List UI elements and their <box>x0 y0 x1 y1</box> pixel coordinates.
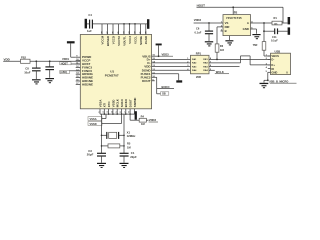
wire U2 DIR to R3 <box>217 26 223 28</box>
IC U2 level shifter <box>223 10 251 35</box>
capacitor C9 0.1uF <box>45 61 54 78</box>
ground under U2 bottom pin <box>225 36 233 46</box>
svg-text:VDD3: VDD3 <box>149 118 157 122</box>
capacitor C8 10uF <box>24 61 40 79</box>
power tie bar right of R1 <box>288 17 291 24</box>
node VDD3 label bottom right <box>149 118 158 122</box>
capacitor C3 20pF <box>87 149 106 163</box>
node VSSD label <box>88 114 122 126</box>
capacitor C11 0.1uF <box>264 28 288 42</box>
svg-text:20R: 20R <box>196 75 201 79</box>
svg-text:R5: R5 <box>127 142 131 146</box>
svg-text:VDD3: VDD3 <box>194 18 202 22</box>
svg-text:VSSA: VSSA <box>90 117 97 121</box>
svg-text:VDD: VDD <box>4 57 11 61</box>
svg-text:1M: 1M <box>141 122 145 126</box>
ground under C9 <box>45 78 54 83</box>
wire U2 GND pin to ground <box>251 29 257 34</box>
power tie above pin 1 <box>67 41 76 57</box>
svg-text:74VCT1T45: 74VCT1T45 <box>226 16 242 20</box>
svg-text:D+: D+ <box>271 63 275 67</box>
ground under U2 GND <box>252 34 260 39</box>
svg-text:RA4: RA4 <box>192 69 197 72</box>
RP1 right wires: D- straight <box>209 58 271 60</box>
power tie bar right of VCC rail <box>147 19 149 29</box>
node VDD label far left <box>3 57 20 61</box>
IC U1 body <box>80 35 151 109</box>
svg-text:VDD1: VDD1 <box>62 57 69 61</box>
U1 right pin numbers <box>152 55 155 82</box>
wire HOST rail to U2 VCC <box>232 6 234 14</box>
ground under C8 <box>32 79 41 84</box>
svg-text:RP1: RP1 <box>196 52 202 56</box>
U1 right pin stubs <box>152 56 191 81</box>
svg-text:RB1: RB1 <box>203 59 208 61</box>
wire U2 A output <box>251 22 273 24</box>
capacitor C6 0.1uF <box>195 22 214 41</box>
svg-text:USB_B_MICRO: USB_B_MICRO <box>269 79 289 83</box>
svg-text:0.1uF: 0.1uF <box>195 31 202 35</box>
resistor R3 1k5 <box>215 27 224 60</box>
svg-text:VCCD: VCCD <box>111 36 115 44</box>
svg-text:DB: DB <box>162 93 166 96</box>
U1 left pin numbers <box>76 56 79 85</box>
junction dots on VCC rail <box>123 23 136 25</box>
svg-text:VOUTL: VOUTL <box>122 36 126 46</box>
svg-text:VSSD: VSSD <box>90 122 97 126</box>
svg-text:VCC3: VCC3 <box>128 36 132 44</box>
U1 top pin wires from VCC rail <box>102 24 146 35</box>
connector USB micro-B <box>271 49 291 74</box>
U2 pin numbers <box>221 12 253 32</box>
svg-text:USB: USB <box>275 49 281 53</box>
wire crystal column left <box>101 114 103 153</box>
svg-text:VCCL: VCCL <box>133 36 137 44</box>
ground tie bar right of bottom bus <box>135 111 137 120</box>
resistor R4 1M (reset pullup) <box>130 114 148 126</box>
U1 bottom pin numbers <box>99 111 131 113</box>
node HOST port label left <box>60 62 81 66</box>
RP1 row4 wire and WCLK label <box>209 70 229 74</box>
svg-text:FB2: FB2 <box>21 55 26 59</box>
U2 pin B stub <box>221 30 224 32</box>
node DB port label <box>157 92 169 96</box>
U1 left pin labels <box>82 55 94 86</box>
svg-text:C6: C6 <box>196 27 200 31</box>
ground tie bar right of C11 <box>288 27 291 34</box>
ferrite bead FB2 <box>21 55 81 63</box>
U1 bottom pin stubs <box>100 109 134 114</box>
svg-text:RB4: RB4 <box>203 69 208 72</box>
resistor R1 <box>272 16 288 25</box>
svg-text:75R: 75R <box>253 43 258 47</box>
bottom ground bus wire <box>100 113 135 115</box>
VCC rail wire <box>87 23 147 25</box>
svg-text:0.1uF: 0.1uF <box>271 39 278 43</box>
svg-text:20pF: 20pF <box>87 153 94 157</box>
ground tie bar below DGND wire <box>176 74 182 83</box>
svg-text:DOUT: DOUT <box>142 79 151 83</box>
svg-text:12MHz: 12MHz <box>127 134 136 138</box>
svg-text:D-: D- <box>271 58 274 62</box>
svg-text:R1: R1 <box>274 16 278 20</box>
U1 bottom pin labels (vertical) <box>98 98 136 108</box>
resistor R5 1M (across crystal) <box>101 142 131 150</box>
svg-text:C4: C4 <box>88 13 92 17</box>
svg-text:NOWE: NOWE <box>139 36 143 45</box>
U1 right pin labels <box>141 54 152 83</box>
resistor pack RP1 20R <box>187 52 212 80</box>
svg-text:B: B <box>225 29 227 33</box>
junction dots on bottom bus <box>104 113 131 115</box>
svg-text:RA1: RA1 <box>192 58 197 61</box>
svg-text:GND: GND <box>271 71 277 75</box>
svg-text:C11: C11 <box>272 35 277 39</box>
connector pin stubs and numbers <box>268 56 271 72</box>
svg-text:SSPND: SSPND <box>133 98 137 108</box>
svg-text:RA2: RA2 <box>192 62 197 65</box>
svg-text:RB2: RB2 <box>203 63 208 65</box>
wire VBUS node down <box>263 23 265 42</box>
wire crystal column right <box>123 114 125 153</box>
svg-text:ZGND: ZGND <box>144 36 148 44</box>
svg-text:HOST: HOST <box>197 4 206 8</box>
svg-text:10uF: 10uF <box>24 70 31 74</box>
svg-text:1M: 1M <box>127 145 131 149</box>
node (ABC) port label left <box>60 70 81 74</box>
RP1 row2 wire with hop <box>209 56 271 65</box>
ground under C6 <box>205 41 213 46</box>
svg-text:1uF: 1uF <box>87 29 92 33</box>
resistor 75R <box>253 42 271 56</box>
svg-text:BUSED: BUSED <box>106 36 110 46</box>
node VDD3 tie at U1 VBUS pin <box>156 44 173 58</box>
svg-text:BCKO: BCKO <box>162 85 170 89</box>
svg-text:GND: GND <box>243 27 249 31</box>
power tie bar left of C4 <box>85 19 87 29</box>
svg-text:R4: R4 <box>141 115 145 119</box>
crystal X1 12MHz <box>101 130 136 139</box>
wire connector GND to ground <box>264 72 269 82</box>
capacitor C4 <box>87 13 92 33</box>
U1 top pin labels (vertical) <box>100 35 148 46</box>
svg-text:ID: ID <box>271 67 274 71</box>
svg-text:1k5: 1k5 <box>220 49 225 52</box>
node USB_B_MICRO label <box>269 79 297 83</box>
wire HOST rail down to R1 <box>282 7 284 23</box>
node VDD3 label at U2 <box>194 18 223 23</box>
svg-text:(ABC): (ABC) <box>60 71 67 74</box>
capacitor C1 22pF <box>120 151 137 163</box>
U1 left pin stubs <box>76 57 81 84</box>
svg-text:VCCTX: VCCTX <box>117 36 121 46</box>
ground under connector <box>260 83 269 88</box>
svg-text:VBUS: VBUS <box>271 54 279 58</box>
node VSSA label <box>88 114 106 121</box>
svg-text:HID2NE: HID2NE <box>82 82 93 86</box>
svg-text:PCM2707: PCM2707 <box>105 74 119 78</box>
node BCKO label <box>157 77 174 94</box>
U1 top pin numbers <box>102 31 148 34</box>
svg-text:C8: C8 <box>25 67 29 71</box>
svg-text:RA3: RA3 <box>192 65 197 68</box>
svg-text:RB3: RB3 <box>203 66 208 68</box>
RP1 row3 wire <box>209 66 240 68</box>
svg-text:A: A <box>247 21 249 25</box>
node HOST label top <box>197 4 284 8</box>
svg-text:VCCM: VCCM <box>100 35 104 44</box>
svg-text:HOST: HOST <box>61 62 68 65</box>
ground under C3 <box>97 163 106 168</box>
ground under C1 <box>120 163 129 168</box>
svg-text:22pF: 22pF <box>130 155 137 159</box>
junction dots on VDD wire <box>35 60 37 62</box>
